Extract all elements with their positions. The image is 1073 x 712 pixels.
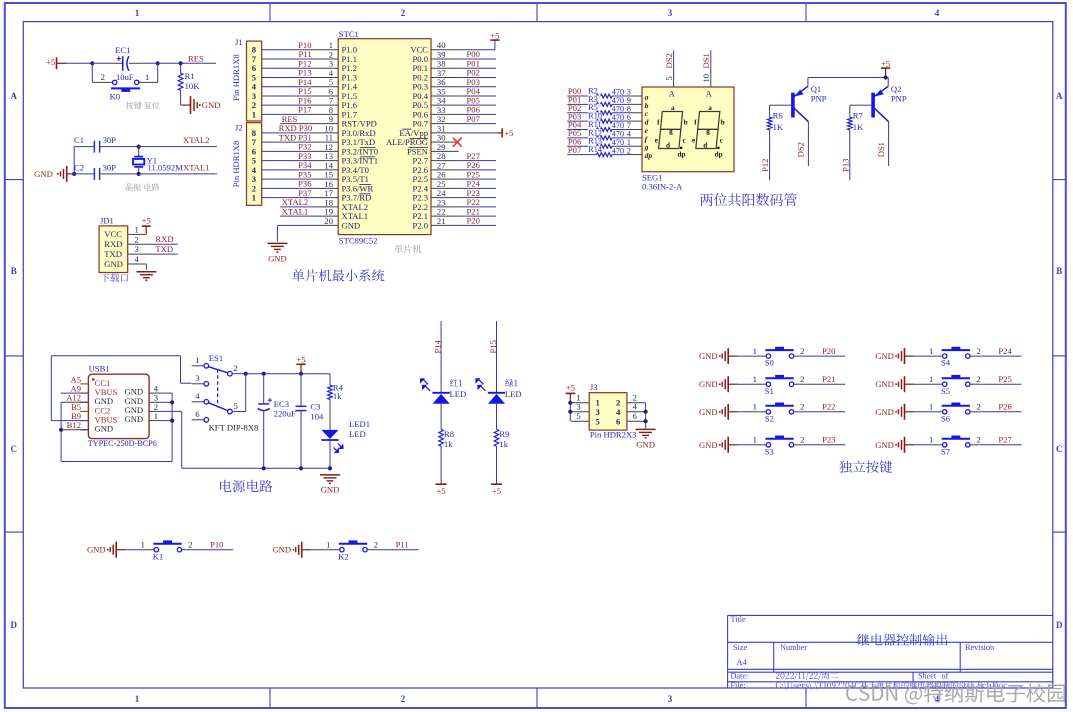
svg-text:2: 2 — [134, 234, 138, 244]
junction — [244, 372, 248, 376]
wire — [914, 383, 932, 385]
wire — [262, 76, 311, 78]
svg-text:A4: A4 — [736, 657, 747, 667]
svg-text:d: d — [703, 141, 707, 149]
wire — [459, 113, 496, 115]
resistor R4 — [328, 383, 344, 401]
svg-text:3: 3 — [134, 244, 138, 254]
svg-text:GND: GND — [268, 254, 287, 264]
svg-text:2: 2 — [800, 346, 804, 356]
caption 两位共阳数码管 — [700, 193, 797, 206]
wire — [262, 150, 311, 152]
wire +5 rail B — [182, 467, 330, 469]
wire — [158, 62, 181, 64]
svg-text:P25: P25 — [998, 374, 1011, 384]
svg-text:P07: P07 — [467, 114, 481, 124]
svg-text:2: 2 — [976, 435, 980, 445]
wire — [146, 243, 178, 245]
svg-text:XTAL2: XTAL2 — [183, 135, 210, 145]
svg-text:LED: LED — [505, 389, 522, 399]
svg-text:GND: GND — [699, 351, 718, 361]
mcu pins left — [311, 40, 379, 230]
wire — [888, 122, 890, 134]
pin lead — [631, 120, 642, 122]
svg-text:P10: P10 — [210, 539, 223, 549]
wire — [459, 178, 496, 180]
svg-text:B: B — [11, 266, 17, 276]
svg-text:DS2: DS2 — [664, 53, 674, 68]
svg-text:P24: P24 — [998, 346, 1012, 356]
svg-text:R7: R7 — [853, 110, 864, 120]
svg-text:g: g — [669, 127, 673, 135]
svg-text:+5: +5 — [492, 486, 501, 496]
svg-text:Q1: Q1 — [811, 84, 822, 94]
svg-text:GND: GND — [104, 259, 123, 269]
pin lead — [631, 103, 642, 105]
no connect X (pin30) — [453, 138, 462, 147]
mcu U STC1 — [338, 29, 431, 245]
svg-text:10K: 10K — [185, 81, 201, 91]
wire DS1 (seg pin 10) — [710, 50, 712, 69]
svg-text:220uF: 220uF — [274, 409, 296, 419]
svg-text:TYPEC-250D-BCP6: TYPEC-250D-BCP6 — [88, 439, 157, 448]
svg-text:2: 2 — [188, 539, 192, 549]
wire — [804, 355, 845, 357]
svg-text:1: 1 — [753, 346, 757, 356]
caption 电源电路 — [220, 480, 272, 493]
wire — [262, 160, 311, 162]
pin lead — [673, 69, 675, 87]
wire — [61, 392, 89, 394]
svg-text:1: 1 — [929, 435, 933, 445]
wire — [459, 76, 496, 78]
wire — [496, 404, 498, 430]
svg-text:3: 3 — [195, 373, 199, 383]
wire — [329, 400, 331, 430]
wire — [74, 173, 94, 175]
svg-text:R14: R14 — [588, 145, 602, 154]
pin lead — [631, 137, 642, 139]
svg-text:3: 3 — [668, 8, 673, 18]
capacitor EC3 — [258, 374, 296, 469]
wire — [612, 145, 631, 147]
svg-text:6: 6 — [195, 409, 200, 419]
wire — [569, 402, 572, 404]
capacitor C3 — [296, 374, 324, 469]
svg-text:+5: +5 — [46, 57, 55, 67]
ground GND (power circuit) — [320, 474, 340, 476]
svg-text:S5: S5 — [941, 386, 950, 396]
svg-text:470: 470 — [612, 146, 624, 155]
date value — [776, 672, 838, 680]
junction — [299, 466, 303, 470]
pin lead — [631, 154, 642, 156]
svg-text:Pin HDR1X8: Pin HDR1X8 — [231, 54, 241, 101]
svg-text:2: 2 — [374, 539, 378, 549]
wire — [138, 167, 140, 174]
svg-text:+5: +5 — [504, 128, 513, 138]
wire — [645, 403, 647, 421]
svg-text:10uF: 10uF — [116, 72, 134, 82]
svg-text:2: 2 — [627, 146, 631, 155]
svg-text:2: 2 — [976, 402, 980, 412]
svg-text:J2: J2 — [235, 122, 243, 132]
svg-text:1K: 1K — [853, 122, 864, 132]
wire — [612, 95, 631, 97]
svg-text:P23: P23 — [822, 435, 835, 445]
wire — [770, 104, 778, 106]
wire — [980, 411, 1021, 413]
watermark — [846, 683, 1065, 704]
power +5 (P15) — [491, 483, 502, 485]
svg-text:b: b — [721, 119, 725, 127]
svg-text:1: 1 — [929, 402, 933, 412]
wire — [262, 58, 311, 60]
svg-text:GND: GND — [202, 100, 221, 110]
led LED1 — [321, 419, 370, 452]
svg-text:20: 20 — [324, 216, 333, 226]
svg-text:P15: P15 — [488, 340, 498, 353]
connector J3 — [589, 382, 627, 430]
svg-text:P26: P26 — [998, 402, 1012, 412]
push button S0 — [753, 346, 805, 368]
label 单片机 — [394, 245, 421, 254]
svg-text:4: 4 — [195, 391, 200, 401]
wire — [849, 148, 851, 180]
pin 1 lead — [932, 383, 942, 385]
connector JD1 — [99, 215, 128, 272]
ground (J3) — [636, 428, 656, 430]
svg-text:K1: K1 — [153, 551, 164, 561]
svg-text:+5: +5 — [490, 31, 499, 41]
wire — [262, 178, 311, 180]
svg-text:C3: C3 — [310, 402, 320, 412]
junction — [179, 61, 183, 65]
seven-segment display SEG1 — [642, 87, 734, 191]
svg-text:P21: P21 — [822, 374, 835, 384]
svg-text:DS1: DS1 — [701, 53, 711, 68]
resistor R3 designator — [588, 95, 602, 102]
usb connector USB1 — [88, 363, 149, 438]
ground (JD1) — [136, 271, 156, 273]
wire — [262, 49, 311, 51]
wire — [807, 122, 809, 134]
wire — [329, 374, 331, 386]
wire — [160, 392, 172, 394]
svg-text:GND: GND — [699, 440, 718, 450]
junction — [170, 419, 174, 423]
junction — [568, 401, 572, 405]
wire — [232, 411, 246, 413]
wire — [146, 253, 178, 255]
pin lead — [710, 69, 712, 87]
junction — [299, 372, 303, 376]
svg-text:K2: K2 — [338, 551, 349, 561]
ground (MCU) — [267, 242, 287, 244]
svg-text:GND: GND — [125, 414, 144, 424]
junction — [328, 466, 332, 470]
wire — [804, 411, 845, 413]
pin 1 lead — [144, 549, 154, 551]
wire — [459, 160, 496, 162]
wire — [262, 197, 311, 199]
wire — [980, 444, 1021, 446]
title 继电器控制输出 — [857, 633, 947, 645]
svg-text:TXD: TXD — [155, 244, 173, 254]
wire — [61, 401, 88, 403]
svg-text:GND: GND — [272, 545, 291, 555]
svg-text:USB1: USB1 — [89, 363, 110, 373]
svg-text:+5: +5 — [566, 383, 575, 393]
svg-text:STC89C52: STC89C52 — [339, 235, 378, 245]
resistor R10 designator — [588, 112, 602, 119]
wire — [459, 104, 496, 106]
caption 独立按键 — [839, 460, 892, 472]
svg-text:LED: LED — [450, 389, 467, 399]
wire gnd rail A — [61, 461, 172, 463]
svg-text:6: 6 — [616, 416, 621, 426]
wire — [567, 154, 596, 156]
junction — [72, 172, 76, 176]
svg-text:1: 1 — [135, 8, 140, 18]
label 绿1 — [505, 379, 517, 387]
junction — [59, 428, 63, 432]
pin 1 lead — [932, 411, 942, 413]
svg-text:B: B — [1056, 266, 1062, 276]
wire — [91, 63, 93, 82]
wire — [645, 421, 647, 428]
wire — [612, 128, 631, 130]
wire — [145, 263, 148, 265]
led 红1 — [421, 379, 450, 404]
usb pin leads left — [66, 374, 88, 430]
wire — [262, 113, 311, 115]
wire — [914, 411, 932, 413]
wire — [74, 146, 94, 148]
pin 1 lead — [756, 355, 766, 357]
wire — [850, 104, 858, 106]
svg-text:P22: P22 — [822, 402, 835, 412]
svg-text:30P: 30P — [103, 163, 117, 173]
svg-text:Sheet: Sheet — [918, 672, 937, 681]
pin leads J3 right — [627, 402, 646, 404]
connector J2 — [231, 122, 262, 205]
wire — [262, 132, 311, 134]
svg-text:d: d — [666, 141, 670, 149]
svg-text:GND: GND — [699, 407, 718, 417]
junction — [884, 75, 888, 79]
wire — [804, 444, 845, 446]
svg-text:Pin HDR2X3: Pin HDR2X3 — [590, 430, 637, 440]
wire — [459, 49, 495, 51]
ground GND (crystal) — [34, 166, 74, 182]
junction — [90, 61, 94, 65]
wire — [914, 444, 932, 446]
wire — [459, 169, 496, 171]
label 红1 — [450, 379, 462, 387]
pin 1 lead — [756, 411, 766, 413]
wire — [459, 197, 496, 199]
resistor R10 — [597, 119, 613, 123]
svg-text:D: D — [1056, 620, 1063, 630]
wire — [280, 123, 310, 125]
svg-text:P11: P11 — [396, 539, 409, 549]
svg-text:GND: GND — [875, 379, 894, 389]
wire — [459, 215, 496, 217]
svg-text:Title: Title — [731, 615, 747, 624]
svg-text:+5: +5 — [437, 486, 446, 496]
svg-text:0.36IN-2-A: 0.36IN-2-A — [642, 181, 683, 191]
svg-text:5: 5 — [664, 76, 674, 80]
wire — [804, 383, 845, 385]
resistor R11 — [597, 127, 613, 131]
junction — [644, 419, 648, 423]
wire — [567, 95, 596, 97]
svg-text:GND: GND — [699, 379, 718, 389]
pin 1 lead — [756, 444, 766, 446]
svg-text:of: of — [942, 672, 949, 681]
wire — [567, 112, 596, 114]
svg-text:dp: dp — [715, 151, 723, 159]
svg-text:ES1: ES1 — [209, 353, 223, 363]
svg-text:D: D — [11, 620, 18, 630]
svg-text:Size: Size — [733, 643, 747, 652]
svg-text:A: A — [706, 89, 712, 98]
svg-text:1: 1 — [252, 193, 256, 203]
push button S4 — [929, 346, 981, 368]
resistor R5 — [597, 111, 613, 115]
svg-text:PNP: PNP — [891, 94, 907, 104]
capacitor C2 — [74, 163, 116, 180]
pin 2 lead — [970, 444, 980, 446]
svg-text:XTAL1: XTAL1 — [282, 206, 309, 216]
wire — [567, 137, 596, 139]
wire — [232, 373, 246, 375]
wire — [192, 549, 233, 551]
svg-text:STC1: STC1 — [339, 29, 359, 39]
wire — [262, 95, 311, 97]
file value — [776, 681, 1007, 689]
svg-text:a: a — [708, 104, 712, 112]
wire P15 — [496, 321, 498, 393]
pin 2 lead — [970, 355, 980, 357]
push button S1 — [753, 374, 805, 396]
capacitor C1 — [74, 135, 116, 153]
svg-text:LED1: LED1 — [349, 419, 370, 429]
svg-text:DS2: DS2 — [796, 142, 806, 157]
wire — [569, 403, 571, 421]
svg-text:6: 6 — [633, 411, 638, 421]
svg-text:JD1: JD1 — [100, 215, 114, 225]
wire — [280, 206, 310, 208]
wire — [92, 62, 111, 64]
pin 2 lead — [970, 411, 980, 413]
junction — [156, 61, 160, 65]
svg-text:RXD: RXD — [155, 234, 173, 244]
wire — [66, 62, 92, 64]
svg-text:R9: R9 — [499, 429, 509, 439]
svg-text:2: 2 — [101, 72, 105, 82]
svg-text:2: 2 — [233, 363, 237, 373]
push button K0 — [101, 72, 150, 102]
svg-text:RES: RES — [188, 54, 204, 64]
junction — [644, 410, 648, 414]
pin lead — [631, 95, 642, 97]
svg-text:PNP: PNP — [811, 94, 827, 104]
resistor R8 — [439, 429, 454, 449]
wire — [612, 120, 631, 122]
resistor R7 — [848, 105, 865, 148]
svg-text:R1: R1 — [185, 71, 195, 81]
svg-text:a: a — [671, 104, 675, 112]
push button S6 — [929, 402, 981, 424]
svg-text:DS1: DS1 — [876, 142, 886, 157]
svg-text:1: 1 — [753, 435, 757, 445]
resistor R14 designator — [588, 146, 602, 153]
resistor R12 designator — [588, 129, 602, 136]
svg-text:A: A — [669, 89, 675, 98]
resistor R1 — [178, 63, 200, 105]
svg-text:10: 10 — [701, 74, 711, 83]
svg-text:+5: +5 — [142, 215, 151, 225]
title block — [728, 615, 1053, 690]
push button K1 — [141, 539, 193, 561]
pin 2 lead — [794, 444, 804, 446]
wire P14 — [440, 321, 442, 393]
pin lead — [631, 145, 642, 147]
svg-text:Revision: Revision — [965, 643, 994, 652]
wire — [440, 404, 442, 430]
svg-text:P27: P27 — [998, 435, 1012, 445]
wire — [61, 429, 88, 431]
svg-text:1: 1 — [252, 109, 256, 119]
svg-text:VCC: VCC — [104, 229, 122, 239]
resistor R14 — [597, 153, 613, 157]
wire — [100, 146, 111, 148]
svg-text:5: 5 — [233, 401, 237, 411]
pin leads K0 — [92, 81, 112, 83]
svg-text:KFT DIP-8X8: KFT DIP-8X8 — [209, 422, 259, 432]
wire — [459, 67, 496, 69]
push button S7 — [929, 435, 981, 457]
wire — [100, 173, 111, 175]
svg-text:dp: dp — [645, 151, 653, 160]
wire — [139, 173, 217, 175]
svg-text:P12: P12 — [760, 159, 770, 172]
pin leads J3 left — [571, 402, 589, 404]
resistor R3 — [597, 102, 613, 106]
switch ES1 — [192, 353, 259, 432]
svg-text:1: 1 — [753, 402, 757, 412]
wire — [129, 62, 140, 64]
svg-text:R8: R8 — [444, 429, 454, 439]
pin lead — [631, 112, 642, 114]
svg-text:2: 2 — [401, 8, 406, 18]
wire DS2 (seg pin 5) — [673, 50, 675, 69]
svg-text:1: 1 — [753, 374, 757, 384]
power +5 (EA pin31) — [498, 132, 503, 134]
svg-text:R6: R6 — [773, 110, 784, 120]
svg-text:S6: S6 — [941, 413, 951, 423]
svg-text:1: 1 — [141, 539, 145, 549]
svg-text:Q2: Q2 — [891, 84, 902, 94]
wire — [459, 206, 496, 208]
wire — [567, 120, 596, 122]
svg-text:P2.0: P2.0 — [412, 220, 428, 230]
wire — [262, 169, 311, 171]
pin 1 lead — [932, 444, 942, 446]
svg-text:EC1: EC1 — [115, 45, 130, 55]
